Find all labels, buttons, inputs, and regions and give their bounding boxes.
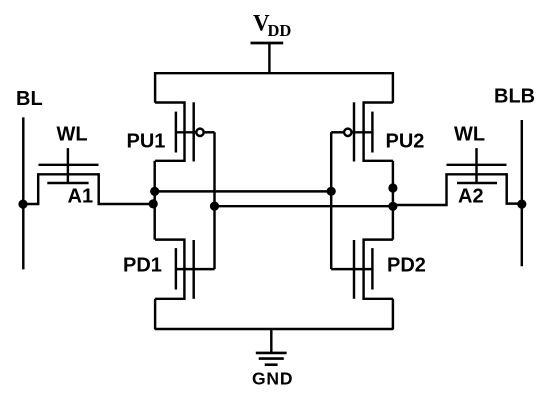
wire A1 gate stub to WL — [67, 148, 69, 183]
PU2 pmos bubble — [344, 129, 351, 136]
transistor PU1 outer gate bar — [192, 102, 194, 161]
wire PU1 gate lead — [176, 131, 196, 133]
wire top rail — [155, 73, 393, 103]
svg-text:A1: A1 — [68, 186, 94, 208]
junction dot BL/A1 — [18, 200, 27, 209]
PU1 pmos bubble — [196, 129, 203, 136]
wire right lower vertical to ground rail — [392, 299, 394, 329]
transistor A2 inner gate bar — [457, 182, 497, 184]
wire GND stem — [270, 329, 272, 353]
svg-text:BLB: BLB — [494, 86, 535, 108]
svg-text:GND: GND — [252, 369, 293, 389]
wire PD1 gate lead — [176, 268, 215, 270]
junction dot BLB/A2 — [517, 200, 526, 209]
wire A2 gate stub to WL — [475, 148, 477, 183]
wire PU2 gate lead left — [331, 131, 343, 133]
junction dot right gate net / cross wire — [327, 187, 336, 196]
transistor PU2 outer gate bar — [353, 102, 355, 161]
transistor PU1 channel/source/drain — [155, 103, 184, 161]
wire BL bit line — [22, 117, 24, 269]
svg-text:PU2: PU2 — [386, 130, 425, 152]
node VDD label — [253, 11, 291, 41]
transistor PD1 outer gate bar — [192, 240, 194, 299]
wire BLB bit line — [521, 120, 523, 266]
transistor PD2 channel/source/drain — [364, 240, 393, 299]
VDD supply bar — [251, 42, 284, 45]
junction dot left node / cross wire — [150, 187, 159, 196]
wire VDD stem — [268, 43, 270, 73]
wire cross-couple upper (left node to right gates) — [155, 190, 332, 192]
wire left gate net vertical — [213, 132, 215, 269]
transistor A1 channel and leads — [23, 174, 155, 204]
wire right storage node vertical — [392, 161, 394, 240]
svg-text:WL: WL — [454, 124, 485, 146]
wire PU1 gate lead right — [205, 131, 215, 133]
transistor A2 channel and leads — [393, 174, 522, 205]
wire right gate net vertical — [330, 132, 332, 269]
junction dot right node upper — [388, 183, 397, 192]
wire left storage node vertical — [153, 161, 155, 240]
svg-text:PD1: PD1 — [123, 255, 162, 277]
transistor A2 outer gate bar — [447, 164, 507, 166]
transistor PU1 inner gate bar — [175, 112, 177, 153]
wire bottom rail — [155, 328, 394, 331]
transistor PU2 channel/source/drain — [364, 103, 393, 161]
transistor PD1 inner gate bar — [175, 248, 177, 289]
wire left lower vertical to ground rail — [154, 299, 156, 329]
junction dot right node / cross wire — [388, 202, 397, 211]
transistor A1 inner gate bar — [47, 182, 88, 184]
junction dot A1 to left node — [149, 199, 158, 208]
transistor PD2 inner gate bar — [371, 248, 373, 289]
svg-text:WL: WL — [57, 124, 88, 146]
junction dot left gate net / cross wire — [210, 202, 219, 211]
ground symbol — [256, 353, 287, 365]
transistor PD1 channel/source/drain — [155, 240, 184, 299]
wire cross-couple lower (left gates to right node) — [215, 205, 393, 207]
svg-text:BL: BL — [16, 88, 43, 110]
wire PU2 gate lead — [352, 131, 372, 133]
svg-text:PD2: PD2 — [387, 255, 426, 277]
svg-text:A2: A2 — [458, 186, 484, 208]
transistor PD2 outer gate bar — [353, 240, 355, 299]
svg-text:DD: DD — [268, 21, 292, 40]
svg-text:PU1: PU1 — [127, 130, 166, 152]
transistor PU2 inner gate bar — [371, 112, 373, 153]
wire PD2 gate lead — [331, 268, 372, 270]
transistor A1 outer gate bar — [39, 164, 99, 166]
